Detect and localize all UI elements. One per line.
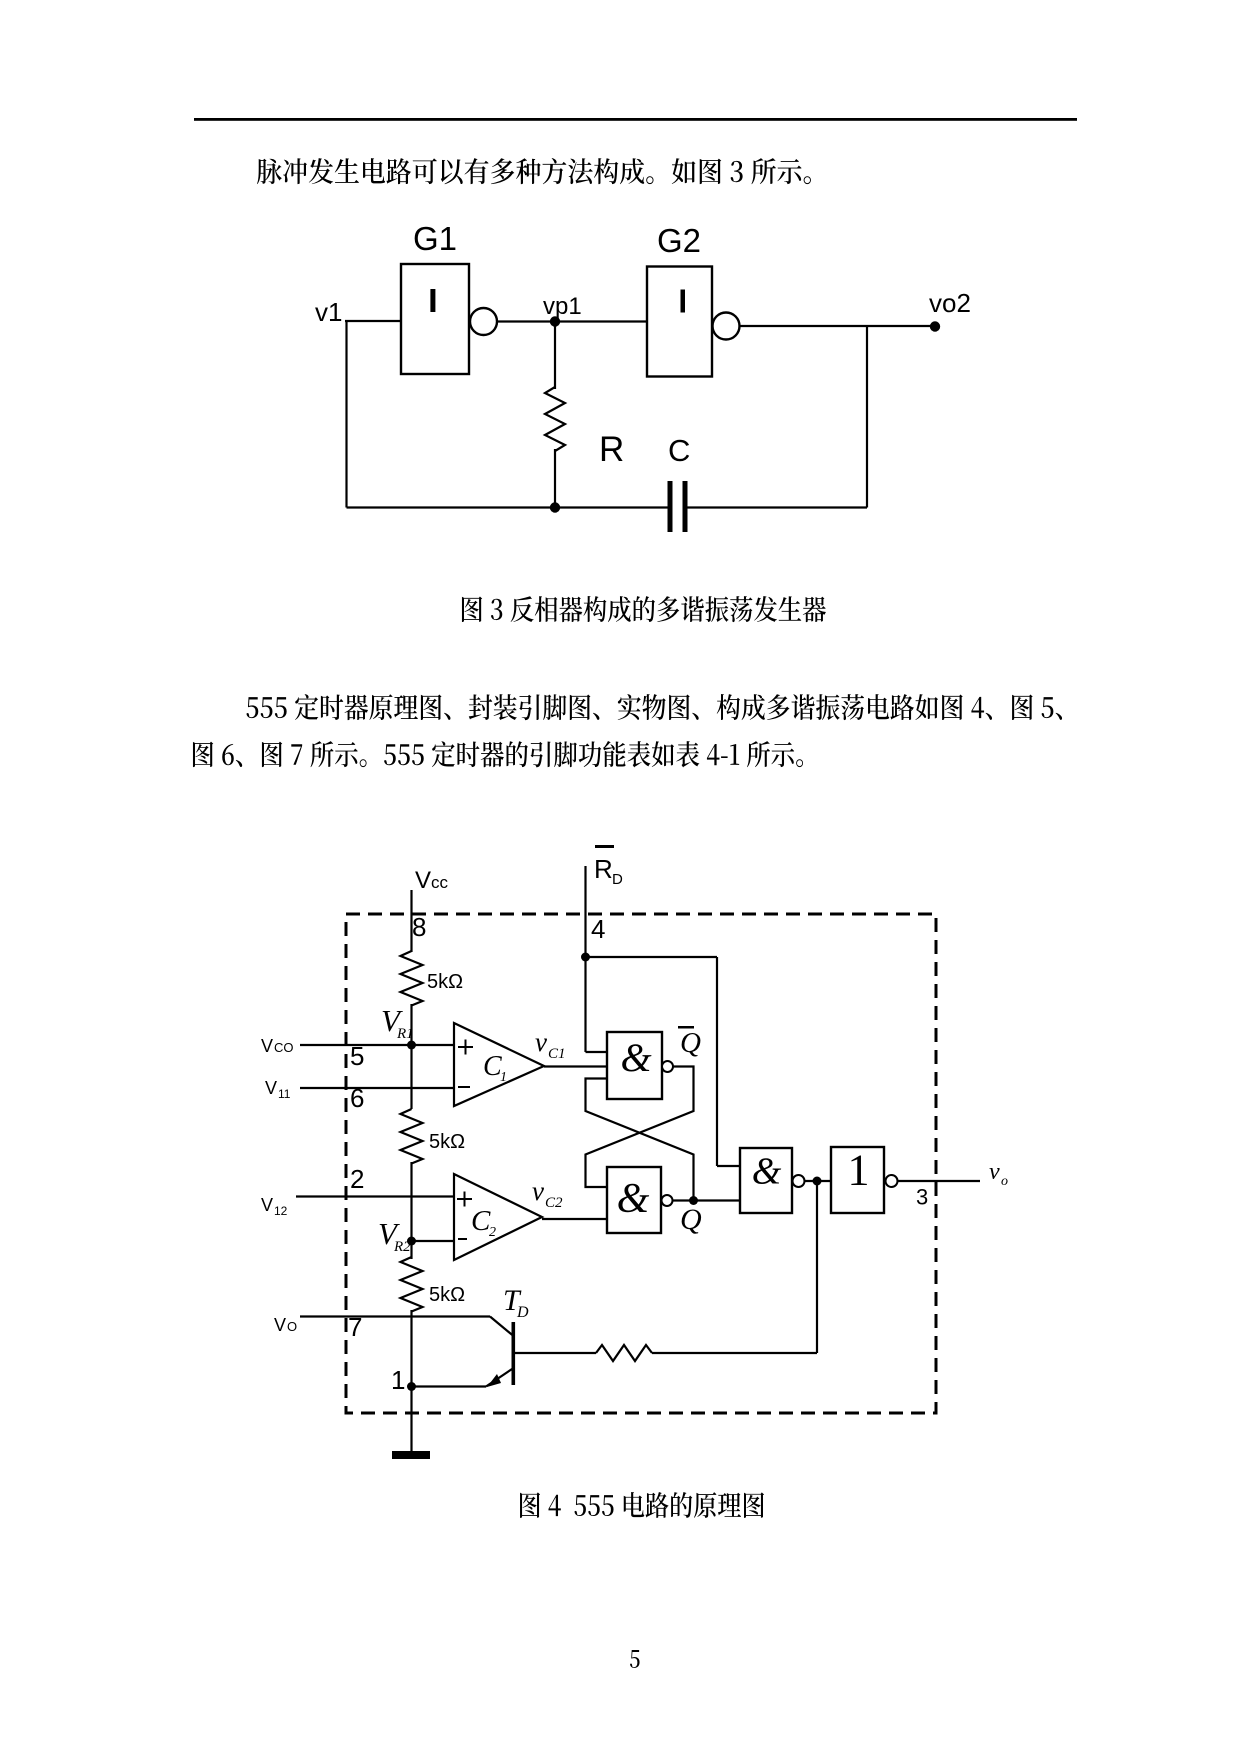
svg-text:vo2: vo2 — [929, 288, 971, 318]
svg-text:CO: CO — [274, 1040, 294, 1055]
svg-text:Q: Q — [680, 1027, 701, 1059]
svg-text:V: V — [261, 1036, 273, 1056]
svg-text:vp1: vp1 — [543, 293, 582, 320]
svg-text:V: V — [274, 1315, 286, 1335]
svg-text:5: 5 — [350, 1041, 364, 1071]
svg-text:R: R — [599, 430, 624, 469]
svg-text:v: v — [535, 1027, 547, 1057]
svg-text:R2: R2 — [393, 1239, 411, 1255]
svg-text:V: V — [261, 1195, 273, 1215]
svg-text:G2: G2 — [657, 222, 701, 259]
svg-text:V: V — [415, 867, 431, 894]
svg-text:v1: v1 — [315, 297, 342, 327]
svg-text:C2: C2 — [545, 1195, 563, 1211]
svg-text:o: o — [1001, 1174, 1008, 1189]
svg-text:1: 1 — [391, 1365, 405, 1395]
svg-text:D: D — [516, 1304, 529, 1321]
svg-text:&: & — [617, 1176, 650, 1222]
svg-text:C1: C1 — [548, 1046, 566, 1062]
svg-text:C: C — [668, 433, 690, 468]
svg-text:&: & — [620, 1035, 651, 1080]
svg-text:D: D — [612, 871, 623, 888]
svg-text:cc: cc — [431, 873, 449, 892]
svg-text:12: 12 — [274, 1204, 288, 1218]
svg-text:R: R — [594, 854, 613, 884]
svg-text:Q: Q — [680, 1203, 702, 1236]
svg-text:1: 1 — [500, 1070, 507, 1085]
svg-text:O: O — [287, 1319, 297, 1334]
svg-text:V: V — [265, 1078, 277, 1098]
svg-text:1: 1 — [848, 1146, 870, 1195]
svg-text:&: & — [752, 1151, 782, 1193]
svg-text:8: 8 — [412, 912, 426, 942]
svg-text:G1: G1 — [413, 220, 457, 257]
svg-text:3: 3 — [916, 1185, 928, 1210]
svg-text:5kΩ: 5kΩ — [429, 1131, 465, 1153]
svg-text:R1: R1 — [396, 1026, 414, 1042]
svg-text:2: 2 — [350, 1164, 364, 1194]
svg-text:2: 2 — [489, 1225, 496, 1240]
svg-text:11: 11 — [278, 1087, 291, 1101]
svg-text:6: 6 — [350, 1083, 364, 1113]
svg-text:C: C — [471, 1205, 491, 1237]
svg-text:5kΩ: 5kΩ — [427, 971, 463, 993]
svg-text:5kΩ: 5kΩ — [429, 1284, 465, 1306]
svg-text:7: 7 — [348, 1312, 362, 1342]
svg-text:v: v — [989, 1159, 1000, 1185]
svg-text:v: v — [532, 1176, 544, 1206]
svg-text:4: 4 — [591, 914, 605, 944]
